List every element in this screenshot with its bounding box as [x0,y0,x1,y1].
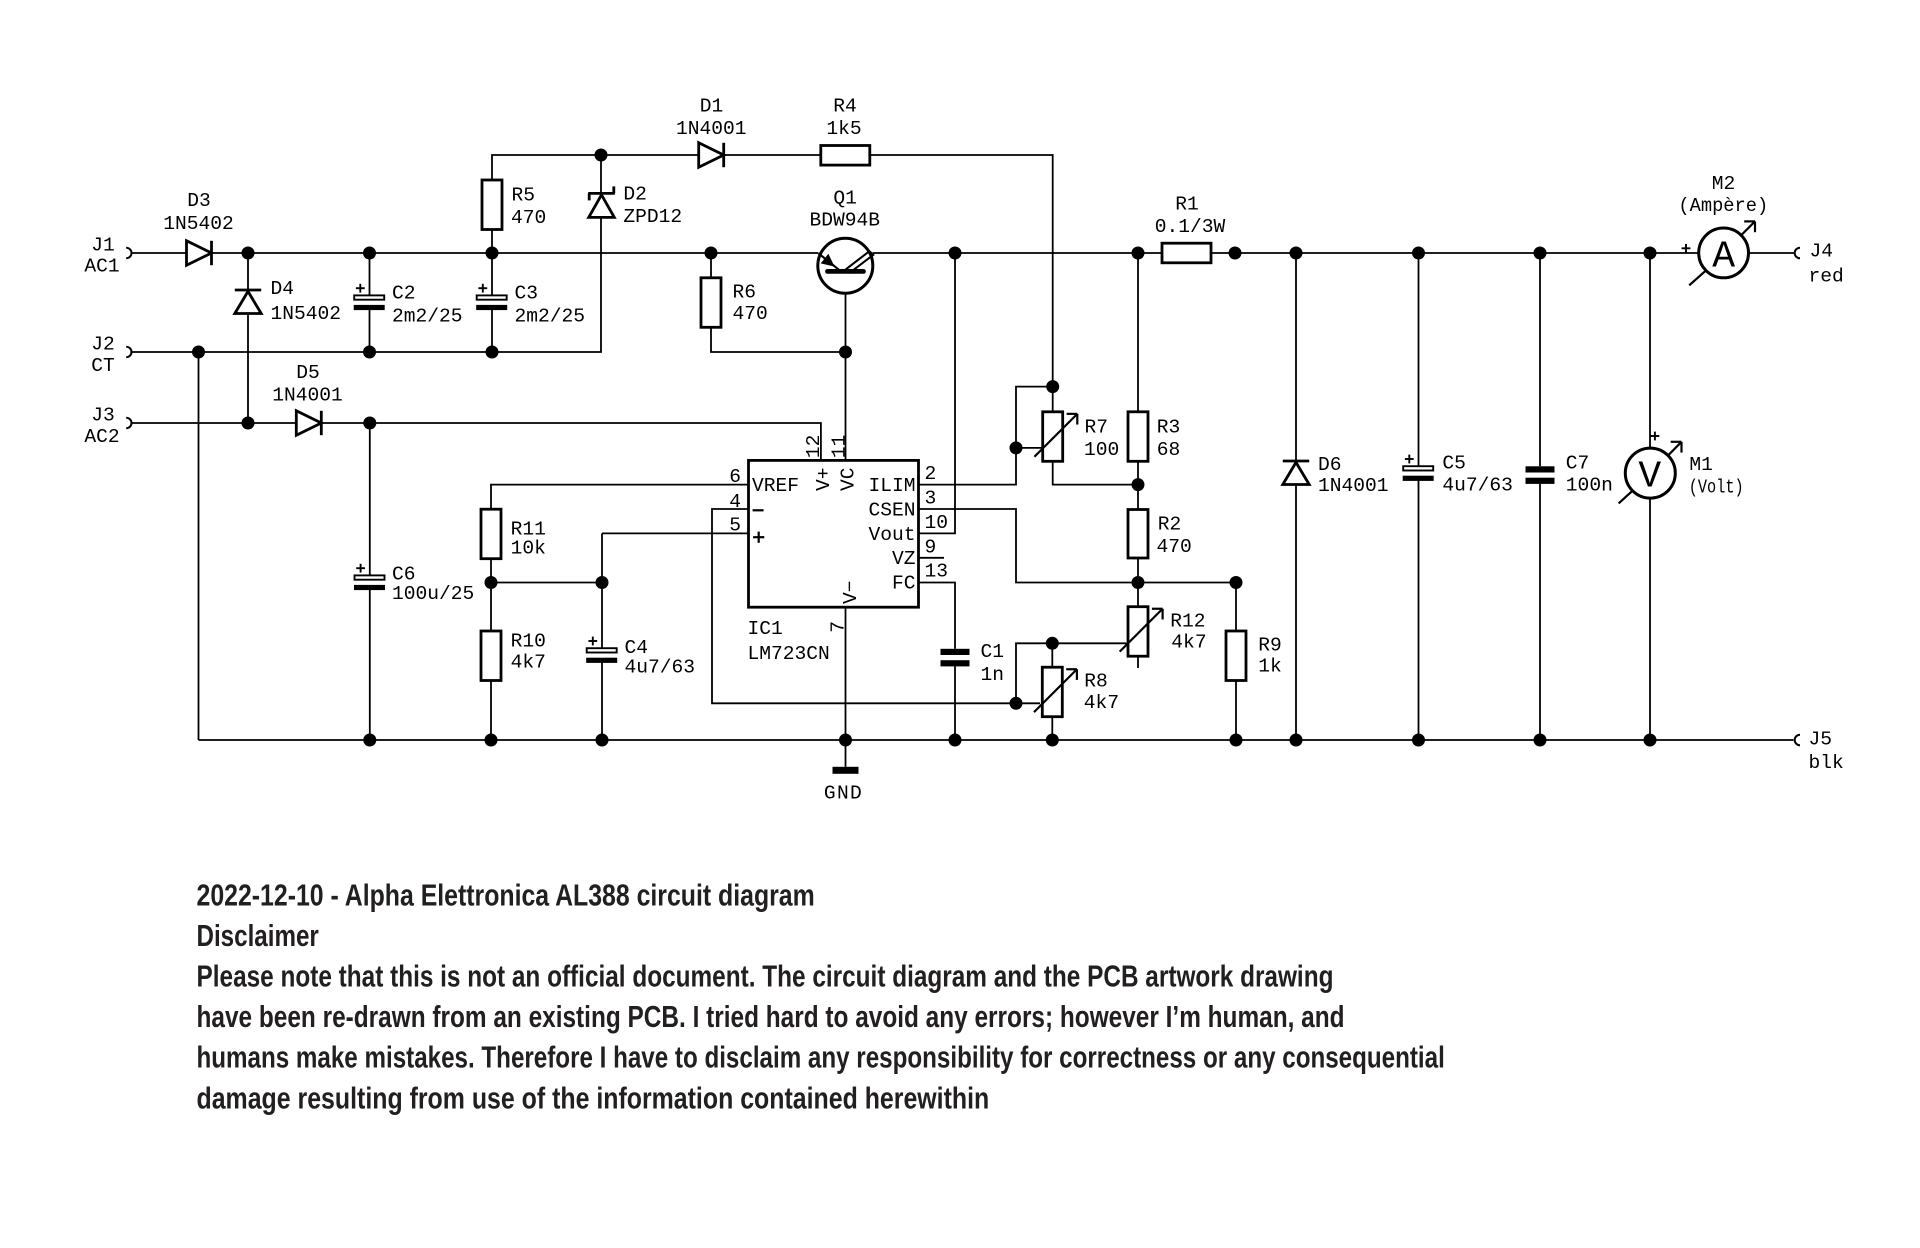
wire M1 leads [1649,253,1651,448]
trimmer R8 4k7 [1042,667,1062,717]
wire IC pin 9 stub [919,557,945,559]
svg-text:red: red [1809,266,1844,288]
wire rail down to R3 top [1137,253,1139,412]
node junction at 1236,582.5 [1230,576,1243,589]
svg-text:have been re-drawn from an exi: have been re-drawn from an existing PCB.… [197,999,1345,1033]
wire M2 to J4 [1748,252,1794,254]
wire IC pin 3 to R2 bottom and R9 top [919,509,1237,583]
svg-text:1n: 1n [981,664,1005,686]
node junction at 369.5,352 [363,346,376,359]
wire AC2 from D5 to IC pin 12 [320,423,821,460]
capacitor C1 1n [941,649,970,655]
svg-text:100n: 100n [1566,475,1613,497]
resistor R9 1k [1226,631,1246,681]
svg-text:1N4001: 1N4001 [1318,475,1389,497]
connector J2 [126,347,131,358]
svg-text:1N5402: 1N5402 [271,303,342,325]
svg-text:J2: J2 [91,334,115,356]
svg-text:CT: CT [91,355,115,377]
node junction at 1052.3,643.3 [1046,637,1059,650]
wire R11 to R10 column [490,559,492,631]
svg-text:2: 2 [925,463,937,485]
wire C7 leads [1539,253,1541,466]
svg-text:2m2/25: 2m2/25 [392,305,463,327]
diode D5 1N4001 [296,411,321,435]
wire C3 leads [491,253,493,295]
wire IC pin 5 to C4 [602,532,749,534]
node junction at 248,423 [242,417,255,430]
svg-text:10: 10 [925,512,949,534]
svg-text:4: 4 [729,491,741,513]
wire R12 wiper line to pin4 net [1016,643,1126,703]
capacitor C7 100n [1526,466,1555,472]
svg-text:J4: J4 [1810,241,1834,263]
svg-text:J3: J3 [91,405,115,427]
node junction at 955,740 [949,734,962,747]
node junction at 492,253 [486,247,499,260]
wire R4 right down to R7 top [870,155,1053,412]
svg-text:M1: M1 [1689,454,1713,476]
node junction at 1540,740 [1534,734,1547,747]
wire R12 bottom open stub [1137,656,1139,668]
svg-text:R8: R8 [1084,671,1108,693]
wire rail down to IC pin 10 Vout [919,253,956,533]
svg-text:Please note that this is not a: Please note that this is not an official… [197,959,1334,993]
svg-text:damage resulting from use of t: damage resulting from use of the informa… [197,1081,990,1115]
wire C1 bottom lead [954,666,956,740]
svg-text:R12: R12 [1170,611,1205,633]
node junction at 369.8,740 [363,734,376,747]
svg-text:R2: R2 [1158,514,1182,536]
svg-text:C3: C3 [515,283,539,305]
resistor R10 4k7 [481,631,501,681]
wire R10 bottom lead [490,681,492,741]
svg-text:VC: VC [838,467,860,491]
svg-text:AC2: AC2 [84,426,119,448]
svg-text:470: 470 [733,303,768,325]
node junction at 1650,740 [1644,734,1657,747]
svg-text:VREF: VREF [752,475,799,497]
svg-text:3: 3 [925,488,937,510]
svg-text:100: 100 [1084,439,1119,461]
svg-text:BDW94B: BDW94B [810,209,881,231]
svg-text:FC: FC [892,573,916,595]
svg-text:A: A [1712,236,1735,279]
wire Q1 base down to IC pin 11 [845,274,847,461]
node junction at 369.8,423 [363,417,376,430]
svg-text:Vout: Vout [868,524,915,546]
svg-text:470: 470 [511,207,546,229]
wire C4 column [601,533,603,648]
wire top net R5 to D1 [492,155,698,180]
svg-text:ILIM: ILIM [868,475,915,497]
svg-text:C2: C2 [392,283,416,305]
svg-text:13: 13 [925,561,949,583]
svg-text:blk: blk [1809,752,1844,774]
capacitor C4 4u7/63 [587,648,617,652]
svg-text:1N4001: 1N4001 [272,384,343,406]
svg-text:C7: C7 [1566,452,1590,474]
svg-text:Disclaimer: Disclaimer [197,918,320,952]
trimmer R12 4k7 [1128,607,1148,657]
svg-text:D5: D5 [296,362,320,384]
svg-text:10k: 10k [511,538,546,560]
wire CT branch down-left column [198,352,200,740]
node junction at 369.5,253 [363,247,376,260]
svg-text:1N5402: 1N5402 [163,213,234,235]
resistor R1 0.1/3W [1162,243,1211,263]
svg-text:68: 68 [1157,439,1181,461]
wire R11/R10 junction to C4 top [491,582,602,584]
svg-text:(Ampère): (Ampère) [1678,195,1768,218]
resistor R4 1k5 [821,146,870,166]
wire D1 to R4 [724,154,821,156]
svg-text:M2: M2 [1712,173,1736,195]
svg-text:(Volt): (Volt) [1689,477,1744,499]
svg-text:D4: D4 [271,278,295,300]
connector J3 [126,418,131,429]
node junction at 1052.3,740 [1046,734,1059,747]
node junction at 711,253 [705,247,718,260]
capacitor C5 4u7/63 [1403,466,1433,470]
svg-text:6: 6 [729,466,741,488]
svg-text:4k7: 4k7 [511,652,546,674]
wire R8 top lead [1051,643,1053,667]
connector J4 [1795,248,1800,259]
wire R7 bottom to R3/R2 junction [1053,461,1138,484]
node junction at 248,253 [242,247,255,260]
wire D4 top lead [247,253,249,290]
connector J5 [1795,735,1800,746]
svg-text:J1: J1 [91,234,115,256]
wire R2 to R12 [1137,558,1139,607]
wire R5 bottom lead [491,230,493,253]
node junction at 1138,253 [1132,247,1145,260]
svg-text:ZPD12: ZPD12 [623,206,682,228]
wire R3 to R2 [1137,461,1139,509]
svg-text:R7: R7 [1085,416,1109,438]
svg-text:R5: R5 [512,184,536,206]
svg-text:5: 5 [729,514,741,536]
svg-text:C1: C1 [981,641,1005,663]
wire AC2 from J3 to D5 [132,422,297,424]
svg-text:V+: V+ [813,467,835,491]
wire AC1 from J1 to D3 [132,252,187,254]
svg-text:4k7: 4k7 [1171,632,1206,654]
svg-text:IC1: IC1 [748,618,783,640]
node junction at 491,740 [485,734,498,747]
svg-text:4u7/63: 4u7/63 [625,656,696,678]
wire R6 leads to Q1 base [710,253,712,278]
svg-text:R3: R3 [1157,416,1181,438]
node junction at 1052.7,386.6 [1046,380,1059,393]
svg-text:4u7/63: 4u7/63 [1442,475,1513,497]
wire C5 leads [1418,253,1420,466]
IC U1 LM723CN box [749,460,919,607]
node junction at 1236,740 [1230,734,1243,747]
svg-text:J5: J5 [1809,729,1833,751]
wire C2 leads [369,253,371,295]
svg-text:100u/25: 100u/25 [392,583,474,605]
diode D6 1N4001 [1283,460,1309,463]
svg-text:1N4001: 1N4001 [676,118,747,140]
node junction at 491,582.5 [485,576,498,589]
wire D6 leads [1295,253,1297,461]
node junction at 492,352 [486,346,499,359]
wire IC pin 7 to GND [845,607,847,740]
node junction at 1418.5,253 [1412,247,1425,260]
wire GND symbol stub [845,740,847,767]
node junction at 1418.5,740 [1412,734,1425,747]
wire R9 leads [1235,583,1237,632]
connector J1 [126,248,131,259]
svg-text:CSEN: CSEN [868,499,915,521]
resistor R11 10k [481,509,501,559]
ground symbol GND [833,767,859,774]
svg-text:AC1: AC1 [84,255,119,277]
svg-text:humans make mistakes. Therefor: humans make mistakes. Therefore I have t… [197,1040,1445,1074]
svg-text:R1: R1 [1175,194,1199,216]
svg-text:V: V [1638,456,1661,499]
svg-text:D3: D3 [187,190,211,212]
resistor R6 470 [701,278,721,328]
node junction at 845.5,352 [839,346,852,359]
node junction at 1016,703.3 [1010,697,1023,710]
diode D3 1N5402 [187,241,212,265]
svg-text:0.1/3W: 0.1/3W [1155,216,1226,238]
svg-text:12: 12 [803,435,825,459]
svg-text:4k7: 4k7 [1084,692,1119,714]
svg-text:Q1: Q1 [833,187,857,209]
node junction at 602,740 [596,734,609,747]
capacitor C6 100u/25 [355,575,385,579]
svg-text:D2: D2 [623,184,647,206]
svg-text:2m2/25: 2m2/25 [515,305,586,327]
wire rail from Q1 to R1 [873,252,1162,254]
resistor R3 68 [1128,412,1148,462]
svg-text:2022-12-10 - Alpha Elettronica: 2022-12-10 - Alpha Elettronica AL388 cir… [197,878,815,912]
wire GND rail [199,739,1794,741]
node junction at 1540,253 [1534,247,1547,260]
svg-text:R6: R6 [733,282,757,304]
wire IC pin 13 to C1 [919,583,956,649]
node junction at 601,155 [595,149,608,162]
svg-text:7: 7 [828,621,850,633]
node junction at 1016,447.9 [1010,441,1023,454]
svg-text:470: 470 [1157,536,1192,558]
wire IC pin 4 down and right to R8 wiper [712,509,1040,703]
node junction at 1235,253 [1229,247,1242,260]
svg-text:R4: R4 [833,96,857,118]
svg-text:V−: V− [840,580,862,604]
svg-text:1k: 1k [1258,656,1282,678]
svg-text:9: 9 [925,536,937,558]
svg-text:D1: D1 [700,96,724,118]
node junction at 955,253 [949,247,962,260]
svg-text:R9: R9 [1258,634,1282,656]
svg-text:GND: GND [824,783,863,805]
svg-text:C5: C5 [1442,452,1466,474]
node junction at 602,582.5 [596,576,609,589]
svg-text:11: 11 [828,435,850,459]
wire CT from J2 to D2 bottom [132,218,602,352]
wire C6 leads [369,423,371,575]
svg-text:1k5: 1k5 [826,118,861,140]
svg-text:LM723CN: LM723CN [748,643,830,665]
wire IC pin 6 VREF to R11 top [491,485,749,510]
svg-text:R10: R10 [511,631,546,653]
node junction at 198.5,352 [192,346,205,359]
transistor Q1 BDW94B [818,238,873,293]
diode D4 1N5402 [235,289,261,292]
node junction at 1138,582.5 [1132,576,1145,589]
wire rail from R1 to M2 [1211,252,1699,254]
svg-text:VZ: VZ [892,548,916,570]
capacitor C3 2m2/25 [477,295,507,299]
wire AC1 rail from D3 to Q1 [212,252,819,254]
node junction at 1296,740 [1290,734,1303,747]
node junction at 1296,253 [1290,247,1303,260]
wire IC pin 2 up to R7 top node [919,387,1053,485]
diode D1 1N4001 [699,143,724,167]
wire D4 bottom lead [247,315,249,424]
capacitor C2 2m2/25 [354,295,384,299]
meter M1 voltmeter [1625,448,1675,498]
wire D2 top lead [600,155,602,194]
node junction at 845.5,740 [839,734,852,747]
svg-text:D6: D6 [1318,454,1342,476]
zener diode D2 ZPD12 [588,192,615,195]
node junction at 1650,253 [1644,247,1657,260]
meter M2 ammeter [1699,228,1749,278]
wire R8 bottom lead [1051,716,1053,740]
resistor R2 470 [1128,510,1148,559]
node junction at 1138,484.6 [1132,478,1145,491]
resistor R5 470 [482,180,502,230]
trimmer R7 100 [1043,412,1063,462]
wire R7 wiper connection [1016,447,1042,449]
